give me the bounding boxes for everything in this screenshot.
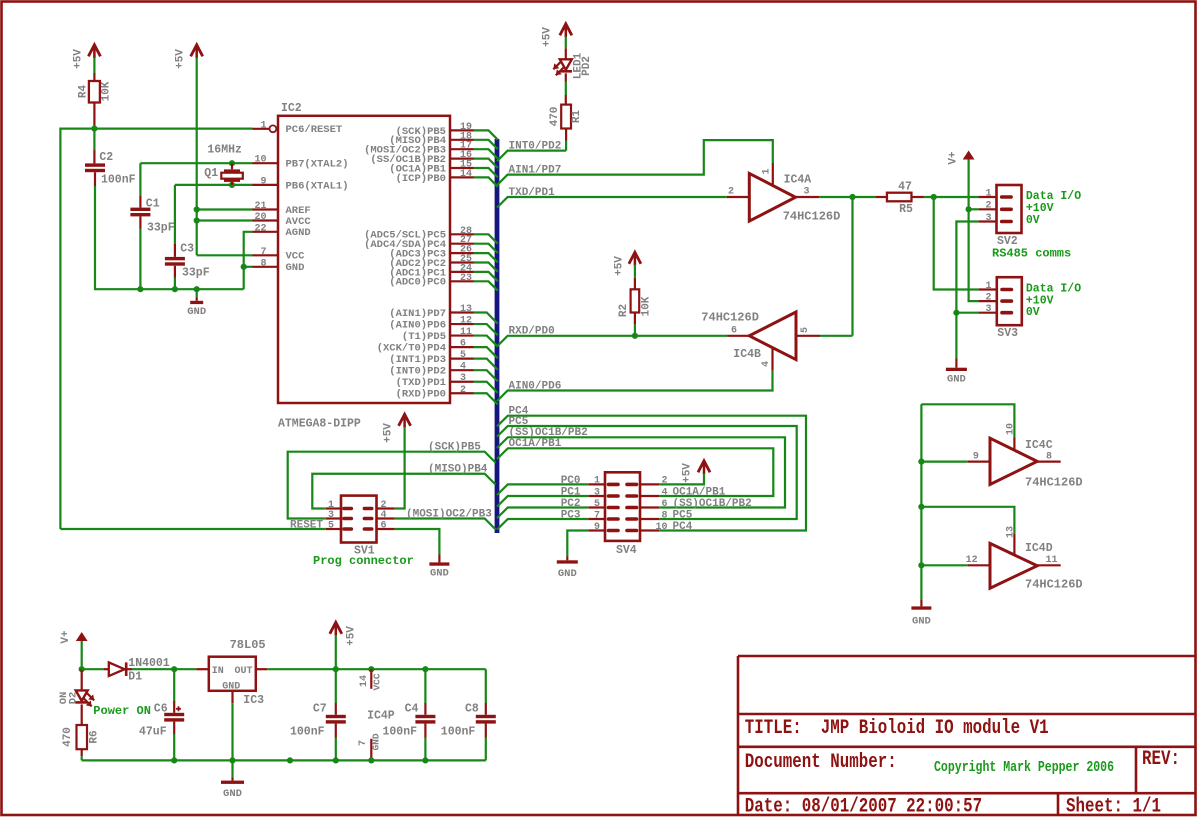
svg-text:C2: C2	[99, 151, 113, 164]
svg-text:8: 8	[1046, 451, 1052, 462]
svg-text:PB6(XTAL1): PB6(XTAL1)	[286, 180, 349, 192]
svg-text:GND: GND	[371, 733, 382, 750]
svg-text:(TXD)PD1: (TXD)PD1	[396, 377, 446, 389]
svg-text:(T1)PD5: (T1)PD5	[402, 331, 446, 343]
svg-text:4: 4	[761, 361, 772, 367]
svg-text:4: 4	[460, 362, 466, 373]
svg-text:74HC126D: 74HC126D	[1025, 476, 1083, 490]
svg-text:470: 470	[549, 107, 561, 127]
svg-text:(SS)OC1B/PB2: (SS)OC1B/PB2	[673, 498, 752, 510]
svg-text:74HC126D: 74HC126D	[701, 310, 759, 324]
svg-text:R1: R1	[571, 110, 583, 124]
svg-text:+5V: +5V	[383, 423, 395, 443]
svg-text:100nF: 100nF	[441, 726, 476, 739]
svg-text:GND: GND	[286, 262, 305, 274]
svg-text:R5: R5	[899, 203, 913, 216]
svg-text:33pF: 33pF	[147, 222, 175, 235]
svg-text:4: 4	[381, 510, 387, 521]
svg-text:GND: GND	[223, 788, 242, 800]
svg-text:AIN1/PD7: AIN1/PD7	[509, 165, 562, 177]
svg-text:+5V: +5V	[73, 49, 85, 69]
svg-text:14: 14	[359, 675, 370, 687]
svg-text:PC6/RESET: PC6/RESET	[286, 124, 343, 136]
svg-text:RXD/PD0: RXD/PD0	[509, 326, 555, 338]
svg-text:AIN0/PD6: AIN0/PD6	[509, 380, 562, 392]
svg-text:(MISO)PB4: (MISO)PB4	[428, 464, 488, 476]
svg-text:VCC: VCC	[286, 251, 306, 263]
svg-text:GND: GND	[187, 306, 206, 318]
svg-text:(INT1)PD3: (INT1)PD3	[389, 354, 446, 366]
svg-text:SV3: SV3	[997, 327, 1018, 340]
svg-text:47uF: 47uF	[139, 726, 167, 739]
svg-text:10K: 10K	[641, 296, 653, 316]
svg-text:R6: R6	[89, 730, 101, 743]
svg-text:OC1A/PB1: OC1A/PB1	[509, 438, 562, 450]
svg-text:GND: GND	[947, 374, 966, 386]
svg-text:+5V: +5V	[614, 256, 626, 276]
svg-text:Power ON: Power ON	[93, 704, 151, 718]
svg-text:PC2: PC2	[561, 498, 581, 510]
svg-text:IC3: IC3	[243, 694, 264, 707]
svg-text:(AIN0)PD6: (AIN0)PD6	[389, 319, 446, 331]
svg-text:3: 3	[594, 487, 600, 498]
svg-text:D1: D1	[128, 671, 142, 684]
svg-text:3: 3	[985, 213, 991, 224]
svg-text:SV4: SV4	[616, 544, 637, 557]
svg-text:33pF: 33pF	[182, 267, 210, 280]
svg-text:6: 6	[460, 339, 466, 350]
svg-text:14: 14	[460, 169, 472, 180]
svg-text:C8: C8	[465, 703, 479, 716]
svg-text:+5V: +5V	[175, 49, 187, 69]
svg-text:+5V: +5V	[346, 626, 358, 646]
svg-text:REV:: REV:	[1142, 748, 1180, 770]
svg-text:100nF: 100nF	[383, 726, 418, 739]
svg-text:GND: GND	[912, 616, 931, 628]
svg-text:2: 2	[985, 292, 991, 303]
svg-text:1: 1	[594, 476, 600, 487]
svg-text:AVCC: AVCC	[286, 216, 312, 228]
svg-text:100nF: 100nF	[290, 726, 325, 739]
svg-text:PC0: PC0	[561, 475, 581, 487]
svg-text:11: 11	[1046, 555, 1058, 566]
svg-text:IC4B: IC4B	[733, 348, 761, 361]
svg-text:3: 3	[985, 304, 991, 315]
svg-text:1: 1	[260, 120, 266, 131]
svg-text:PC1: PC1	[561, 487, 581, 499]
svg-text:(ICP)PB0: (ICP)PB0	[396, 173, 446, 185]
svg-text:AGND: AGND	[286, 227, 311, 239]
svg-text:7: 7	[260, 247, 266, 258]
svg-text:12: 12	[966, 555, 978, 566]
svg-text:16MHz: 16MHz	[207, 144, 242, 157]
svg-text:13: 13	[460, 304, 472, 315]
svg-text:22: 22	[254, 223, 266, 234]
svg-text:78L05: 78L05	[230, 638, 266, 652]
svg-text:(MOSI)OC2/PB3: (MOSI)OC2/PB3	[406, 508, 492, 520]
svg-text:(INT0)PD2: (INT0)PD2	[389, 366, 446, 378]
svg-text:PC5: PC5	[673, 509, 693, 521]
svg-text:GND: GND	[558, 568, 577, 580]
svg-text:3: 3	[460, 373, 466, 384]
svg-text:5: 5	[800, 327, 811, 333]
svg-text:RS485 comms: RS485 comms	[992, 247, 1071, 261]
svg-text:C7: C7	[313, 703, 327, 716]
svg-text:1: 1	[985, 188, 991, 199]
svg-text:10: 10	[254, 155, 266, 166]
svg-text:IC4P: IC4P	[367, 710, 395, 723]
svg-text:PC4: PC4	[673, 521, 693, 533]
svg-text:IC2: IC2	[281, 102, 302, 115]
svg-text:47: 47	[898, 180, 912, 193]
svg-text:3: 3	[803, 187, 809, 198]
svg-text:V+: V+	[60, 630, 72, 644]
svg-text:R4: R4	[78, 85, 90, 99]
svg-text:ATMEGA8-DIPP: ATMEGA8-DIPP	[278, 418, 361, 431]
svg-text:1N4001: 1N4001	[128, 657, 170, 670]
svg-text:(SCK)PB5: (SCK)PB5	[428, 442, 481, 454]
svg-text:10: 10	[1006, 423, 1017, 435]
svg-text:TITLE: JMP Bioloid IO module: TITLE: JMP Bioloid IO module V1	[745, 717, 1049, 739]
svg-text:5: 5	[594, 499, 600, 510]
svg-text:11: 11	[460, 327, 472, 338]
svg-text:IN: IN	[212, 666, 224, 677]
svg-text:D2: D2	[68, 692, 80, 705]
svg-text:C4: C4	[405, 703, 419, 716]
svg-text:(ADC0)PC0: (ADC0)PC0	[389, 277, 446, 289]
svg-text:1: 1	[762, 168, 773, 174]
svg-text:OC1A/PB1: OC1A/PB1	[673, 486, 726, 498]
svg-text:V+: V+	[948, 151, 960, 165]
svg-text:2: 2	[460, 385, 466, 396]
svg-text:6: 6	[731, 326, 737, 337]
svg-text:PC5: PC5	[509, 416, 529, 428]
svg-text:10K: 10K	[101, 81, 113, 101]
svg-text:100nF: 100nF	[101, 174, 136, 187]
svg-text:IC4D: IC4D	[1025, 542, 1053, 555]
svg-text:13: 13	[1006, 526, 1017, 538]
svg-text:Date: 08/01/2007 22:00:57: Date: 08/01/2007 22:00:57	[745, 796, 982, 818]
svg-text:Q1: Q1	[204, 167, 218, 180]
svg-text:74HC126D: 74HC126D	[783, 210, 841, 224]
svg-text:Prog connector: Prog connector	[313, 554, 414, 568]
svg-text:12: 12	[460, 316, 472, 327]
svg-text:(AIN1)PD7: (AIN1)PD7	[389, 308, 446, 320]
svg-text:GND: GND	[222, 681, 240, 692]
svg-text:GND: GND	[430, 568, 449, 580]
svg-text:74HC126D: 74HC126D	[1025, 578, 1083, 592]
svg-text:470: 470	[62, 727, 74, 747]
svg-text:PB7(XTAL2): PB7(XTAL2)	[286, 159, 349, 171]
svg-text:8: 8	[260, 258, 266, 269]
svg-text:Document Number:: Document Number:	[745, 751, 897, 773]
svg-text:20: 20	[254, 212, 266, 223]
svg-text:R2: R2	[618, 304, 630, 317]
svg-text:+5V: +5V	[682, 463, 694, 483]
svg-text:IC4C: IC4C	[1025, 439, 1053, 452]
svg-text:(RXD)PD0: (RXD)PD0	[396, 389, 446, 401]
svg-text:2: 2	[728, 187, 734, 198]
svg-text:23: 23	[460, 273, 472, 284]
svg-text:9: 9	[973, 451, 979, 462]
svg-text:PC3: PC3	[561, 510, 581, 522]
svg-text:5: 5	[328, 520, 334, 531]
svg-text:9: 9	[594, 522, 600, 533]
svg-text:Copyright Mark Pepper 2006: Copyright Mark Pepper 2006	[934, 759, 1114, 776]
svg-text:6: 6	[381, 520, 387, 531]
svg-text:5: 5	[460, 350, 466, 361]
svg-text:PD2: PD2	[581, 56, 593, 76]
svg-text:C3: C3	[180, 243, 194, 256]
svg-text:1: 1	[985, 281, 991, 292]
svg-text:7: 7	[358, 740, 369, 746]
svg-text:C1: C1	[146, 198, 160, 211]
svg-text:2: 2	[985, 201, 991, 212]
svg-text:7: 7	[594, 510, 600, 521]
svg-text:TXD/PD1: TXD/PD1	[509, 187, 556, 199]
svg-text:0V: 0V	[1026, 306, 1040, 319]
svg-text:9: 9	[260, 176, 266, 187]
svg-text:3: 3	[328, 510, 334, 521]
svg-text:INT0/PD2: INT0/PD2	[509, 141, 562, 153]
svg-text:+5V: +5V	[542, 27, 554, 47]
svg-text:Sheet: 1/1: Sheet: 1/1	[1066, 796, 1161, 818]
svg-text:OUT: OUT	[234, 666, 252, 677]
svg-text:C6: C6	[154, 703, 168, 716]
svg-text:IC4A: IC4A	[784, 174, 812, 187]
svg-text:VCC: VCC	[371, 673, 382, 690]
svg-text:0V: 0V	[1026, 214, 1040, 227]
svg-text:(XCK/T0)PD4: (XCK/T0)PD4	[377, 343, 446, 355]
svg-text:21: 21	[254, 201, 266, 212]
